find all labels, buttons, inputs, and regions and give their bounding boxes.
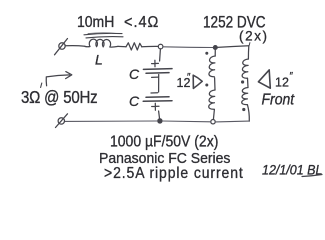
voice coil 2b: [242, 88, 248, 105]
svg-text:12: 12: [275, 76, 289, 90]
minus sign C1: [152, 76, 159, 78]
wire right branch down: [247, 46, 249, 59]
wire between left coils: [214, 78, 216, 90]
tick mark above ohm: [41, 83, 42, 88]
junction dot speaker1 top: [213, 46, 217, 50]
wire input to inductor: [65, 45, 85, 48]
wire top rail to speaker 1: [163, 46, 213, 49]
svg-text:1000 µF/50V (2x): 1000 µF/50V (2x): [110, 134, 218, 151]
polarity dot 2b: [242, 108, 245, 111]
speaker cone 1: [193, 75, 202, 88]
plus sign capacitor C2: [152, 103, 159, 110]
junction open circle bottom speaker1: [211, 120, 215, 124]
terminal input +: [59, 43, 65, 49]
wire right branch bottom: [247, 105, 249, 122]
arrow signal input: [46, 75, 69, 86]
svg-text:″: ″: [187, 72, 191, 83]
wire between capacitors: [158, 75, 160, 93]
inductor core lines: [84, 33, 122, 34]
svg-text:″: ″: [290, 71, 294, 82]
terminal input -: [58, 118, 64, 124]
polarity dot 2a: [241, 80, 244, 83]
wire capacitor to bottom rail: [158, 111, 161, 118]
node junction open circle: [158, 44, 163, 49]
capacitor C1 plates: [143, 68, 172, 71]
junction knot capacitor bottom: [158, 119, 162, 123]
svg-text:<.4Ω: <.4Ω: [124, 13, 159, 31]
svg-text:C: C: [129, 93, 140, 109]
minus sign C2: [151, 92, 158, 94]
svg-text:3Ω @ 50Hz: 3Ω @ 50Hz: [21, 88, 97, 107]
polarity dot 1a: [205, 52, 208, 55]
corner overshoot tick: [248, 43, 251, 46]
svg-text:(2x): (2x): [239, 27, 269, 43]
voice coil 2a: [242, 59, 248, 78]
inductor L coil: [85, 39, 118, 47]
svg-text:C: C: [129, 66, 140, 82]
wire left branch bottom: [213, 109, 214, 119]
svg-text:Front: Front: [262, 92, 296, 109]
svg-text:10mH: 10mH: [77, 14, 114, 31]
wire resistor to node: [142, 45, 158, 47]
svg-text:>2.5A ripple current: >2.5A ripple current: [104, 165, 244, 182]
wire top rail to speaker 2: [217, 46, 249, 48]
svg-text:L: L: [95, 52, 103, 68]
capacitor C2 plates: [146, 96, 169, 99]
wire left speaker branch top: [214, 48, 216, 57]
plus sign capacitor C1: [152, 60, 159, 67]
resistor <.4 ohm: [126, 43, 142, 50]
signature underline: [302, 175, 322, 177]
wire inductor to resistor: [118, 45, 126, 47]
wire between right coils: [247, 78, 250, 87]
bottom rail wire: [65, 120, 158, 122]
speaker cone 2: [258, 70, 270, 88]
voice coil 1a: [209, 56, 215, 77]
voice coil 1b: [209, 90, 215, 109]
wire node down to capacitor: [159, 49, 162, 61]
polarity dot 1b: [205, 84, 208, 87]
